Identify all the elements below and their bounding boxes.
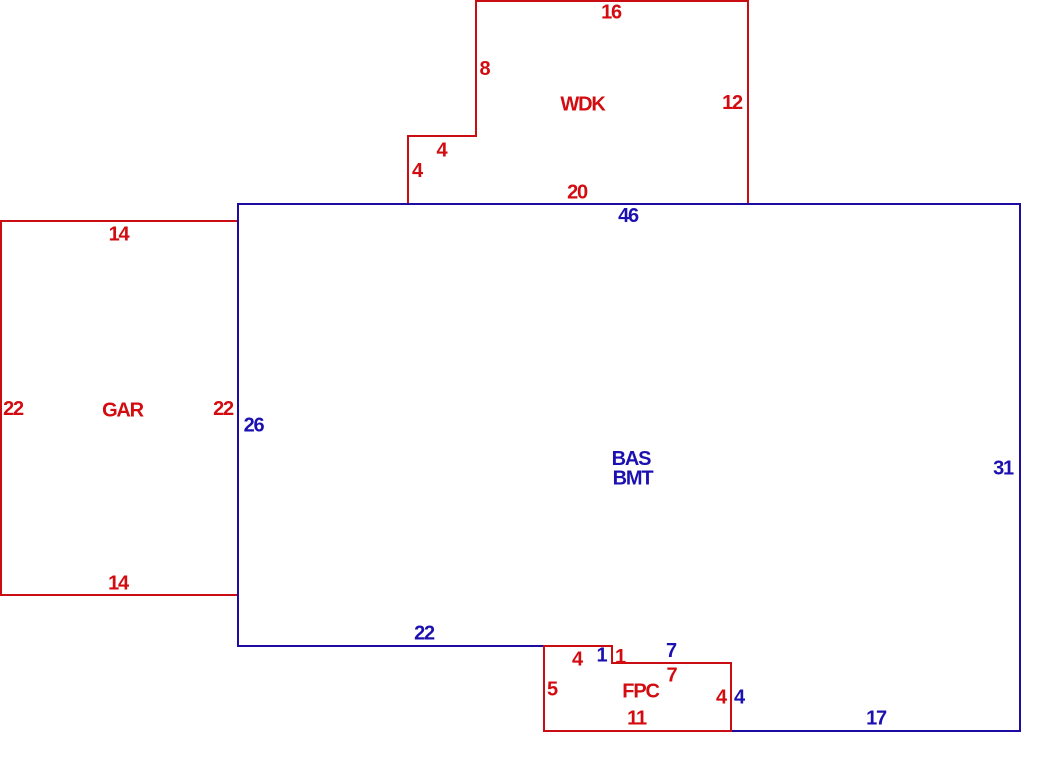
svg-text:26: 26 <box>244 415 265 437</box>
garage outline GAR <box>1 221 238 595</box>
svg-text:14: 14 <box>108 573 130 595</box>
svg-text:22: 22 <box>414 623 435 645</box>
svg-text:20: 20 <box>567 182 588 204</box>
svg-text:22: 22 <box>213 398 234 420</box>
porch outline FPC <box>544 646 731 731</box>
svg-text:WDK: WDK <box>560 94 606 116</box>
svg-text:14: 14 <box>109 224 131 246</box>
svg-text:17: 17 <box>866 708 887 730</box>
svg-text:11: 11 <box>627 708 647 730</box>
svg-text:1: 1 <box>597 645 608 667</box>
svg-text:46: 46 <box>618 205 639 227</box>
wood deck outline WDK <box>408 1 748 204</box>
svg-text:1: 1 <box>615 646 626 668</box>
svg-text:7: 7 <box>666 640 677 662</box>
svg-text:7: 7 <box>667 665 678 687</box>
svg-text:16: 16 <box>601 2 622 24</box>
svg-text:8: 8 <box>480 58 491 80</box>
svg-text:GAR: GAR <box>102 400 145 422</box>
svg-text:22: 22 <box>3 398 24 420</box>
basement outline BAS/BMT <box>238 204 1020 731</box>
svg-text:5: 5 <box>547 679 558 701</box>
svg-text:BMT: BMT <box>613 468 654 490</box>
svg-text:31: 31 <box>993 458 1014 480</box>
svg-text:12: 12 <box>722 92 743 114</box>
svg-text:FPC: FPC <box>622 681 659 703</box>
